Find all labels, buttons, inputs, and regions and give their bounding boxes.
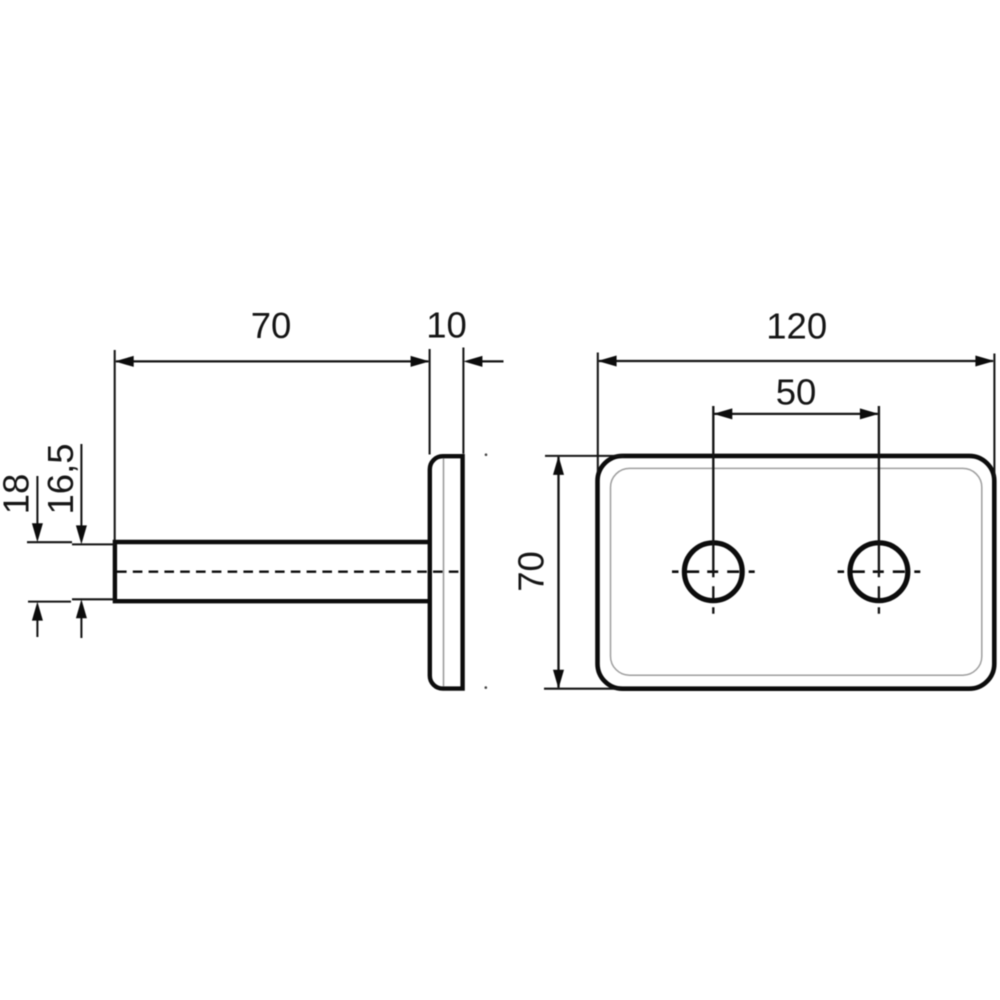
- arrowhead 70 left: [115, 356, 134, 367]
- arrowhead 120 left: [598, 356, 617, 367]
- hole left vertical extension/centerline: [712, 406, 714, 614]
- dimension line 120: [599, 360, 993, 362]
- extension line 70 bottom (front view): [544, 688, 620, 690]
- svg-text:18: 18: [0, 474, 37, 515]
- hole right vertical extension/centerline: [878, 406, 880, 614]
- svg-text:16,5: 16,5: [40, 443, 81, 514]
- dimension line 70 (side view): [116, 360, 428, 362]
- side view: flange tangent edge line: [443, 458, 445, 686]
- arrowhead 50 right: [860, 408, 879, 419]
- extension line 120 right: [993, 354, 995, 478]
- speck top near flange: [485, 453, 488, 456]
- hole left: [684, 543, 742, 601]
- svg-text:70: 70: [511, 551, 552, 592]
- side view: tube bar outline: [113, 540, 430, 603]
- arrowhead 70 bottom: [553, 670, 564, 689]
- arrowhead 70 right: [411, 356, 430, 367]
- extension line 16,5 bottom (bore): [72, 598, 115, 600]
- svg-text:50: 50: [776, 371, 817, 412]
- arrowhead 120 right: [975, 356, 994, 367]
- dim 18 top arrow (down): [36, 476, 38, 526]
- hole left horizontal centerline: [672, 570, 755, 573]
- arrowhead 70 top: [553, 456, 564, 475]
- arrowhead 50 left: [713, 408, 732, 419]
- svg-text:70: 70: [251, 305, 292, 346]
- front view: plate inner edge outline: [611, 468, 982, 675]
- front view: plate outer outline: [598, 456, 995, 689]
- dim 16,5 top arrow (down): [80, 444, 82, 528]
- dimension arrow 10 (outside, pointing left): [481, 360, 504, 362]
- extension line flange front face: [429, 349, 431, 455]
- dimension line 70 (front view): [557, 457, 559, 688]
- dim 16,5 bottom arrow (up): [80, 616, 82, 638]
- svg-text:120: 120: [766, 305, 827, 346]
- dim 18 bottom arrow (up): [36, 618, 38, 637]
- extension line 120 left: [597, 353, 599, 474]
- extension line 16,5 top (bore): [72, 543, 115, 545]
- extension line 70 top (front view): [545, 455, 624, 457]
- hole right horizontal centerline: [838, 570, 921, 573]
- extension line 18 top: [27, 541, 72, 543]
- side view: tube dashed centerline: [117, 571, 462, 573]
- extension line left of 70 dim: [114, 350, 116, 540]
- extension line flange back face: [462, 348, 464, 454]
- speck bottom near flange: [485, 686, 488, 689]
- dimension line 50: [715, 413, 878, 415]
- svg-text:10: 10: [426, 304, 467, 345]
- side view: flange plate outline: [430, 456, 463, 688]
- extension line 18 bottom: [28, 601, 71, 603]
- hole right: [850, 543, 908, 601]
